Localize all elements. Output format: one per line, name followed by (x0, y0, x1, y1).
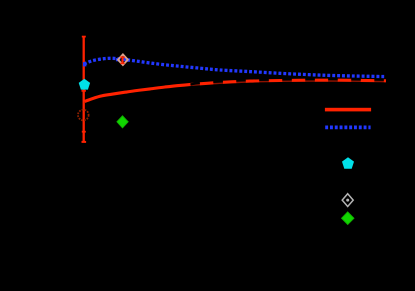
legend sample L1: red solid line (325, 108, 371, 112)
marker M1: cyan pentagon (data point) (79, 79, 90, 90)
legend sample L4: gray open diamond with center dot (342, 194, 353, 207)
legend sample L3: cyan pentagon (342, 157, 354, 168)
curve: black dashed overlay on red line (upper layer) (191, 79, 387, 84)
curve: red solid line (85, 80, 386, 101)
error bar E2 (small red, inside salmon diamond) (120, 57, 124, 64)
marker M2: dark-red dotted open circle (data point) (78, 110, 89, 121)
marker M4: green filled diamond (data point) (117, 116, 128, 128)
error bar E1 (main red vertical at x=83.7) (82, 36, 87, 142)
marker M3: salmon open diamond (data point) (118, 54, 128, 65)
curve: blue dotted line (83, 58, 386, 77)
curve: black dashed overlay on red line (dimming layer) (191, 80, 387, 85)
legend sample L2: blue dotted line (325, 126, 370, 130)
legend sample L5: green filled diamond (342, 212, 354, 224)
